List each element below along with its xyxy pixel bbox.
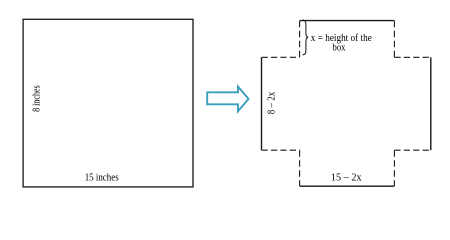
box net: right arm right edge (solid) xyxy=(430,57,432,150)
box net: top tab left edge (dashed) xyxy=(299,21,301,58)
svg-text:box: box xyxy=(333,43,347,54)
svg-text:15 inches: 15 inches xyxy=(85,172,119,183)
box net: left arm left edge (solid) xyxy=(261,57,263,150)
box net: left arm top edge (dashed) xyxy=(262,56,300,58)
svg-text:15 – 2x: 15 – 2x xyxy=(331,173,363,184)
box net: bottom tab bottom edge (solid) xyxy=(300,185,395,187)
box net: right arm top edge (dashed) xyxy=(394,56,430,58)
block arrow pointing right xyxy=(207,87,248,112)
box net: bottom tab right edge (dashed) xyxy=(393,150,395,186)
curly brace for x xyxy=(303,20,309,55)
box net: left arm bottom edge (dashed) xyxy=(262,149,300,151)
svg-text:8 – 2x: 8 – 2x xyxy=(267,91,278,114)
box net: bottom tab left edge (dashed) xyxy=(299,150,301,186)
flat sheet rectangle xyxy=(23,19,193,187)
box net: right arm bottom edge (dashed) xyxy=(394,149,430,151)
box net: top tab top edge (solid) xyxy=(300,20,395,22)
box net: top tab right edge (dashed) xyxy=(393,21,395,58)
svg-text:8 inches: 8 inches xyxy=(31,85,42,112)
